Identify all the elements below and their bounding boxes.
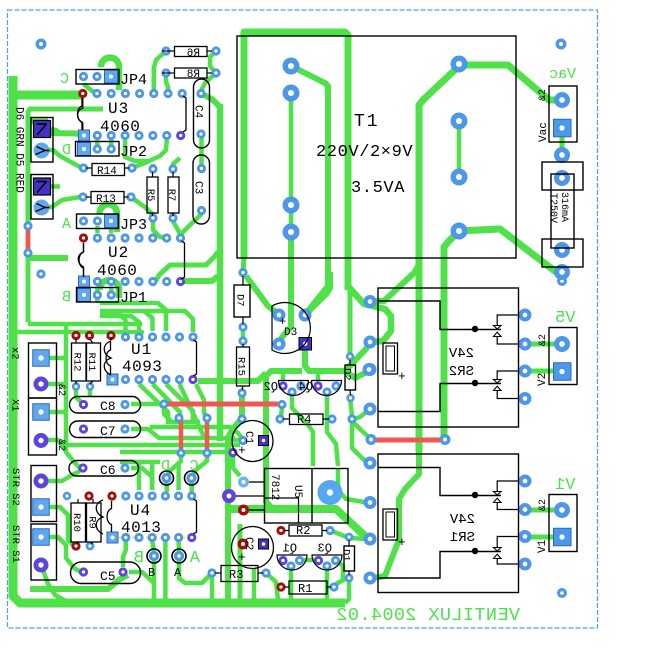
pad D3-2 — [299, 309, 312, 322]
wire SR2 to 5V pin1 — [525, 342, 560, 347]
IC U4 outline — [107, 499, 197, 534]
pad JP4-1 — [79, 72, 88, 81]
wire node to mesh — [164, 406, 200, 422]
relay SR2 diodes bottom — [494, 371, 519, 399]
svg-text:A: A — [174, 566, 182, 580]
svg-text:R6: R6 — [187, 48, 200, 60]
pad SR1 right — [519, 558, 532, 571]
pad R10 bottom red — [71, 541, 80, 550]
wire R3 to trunk — [266, 573, 278, 600]
pad U1 bottom row — [188, 375, 197, 384]
pad U4 bottom row — [161, 533, 170, 542]
svg-text:SR2: SR2 — [449, 364, 474, 380]
wire D6 K stub — [50, 129, 60, 133]
wire mains to fuse — [459, 229, 560, 272]
connector JP1 outline — [77, 288, 119, 303]
wire omega JP3 — [100, 204, 118, 232]
pad R7 bottom — [168, 213, 177, 222]
pad R6 left — [161, 46, 170, 55]
capacitor C1 outline — [232, 421, 273, 462]
capacitor C4 outline — [194, 79, 210, 148]
svg-text:+: + — [398, 535, 406, 550]
pad T1 left — [283, 224, 300, 241]
wire C4 to C3 — [199, 138, 204, 165]
svg-text:4060: 4060 — [100, 118, 140, 136]
wire red v1 — [179, 420, 184, 451]
pad R1 left red — [276, 582, 285, 591]
pad D2 bottom — [346, 394, 354, 402]
pad C3 top — [197, 164, 206, 173]
wire R5 bottom — [153, 221, 166, 238]
pad C1 plus navy square — [259, 436, 269, 446]
svg-text:R4: R4 — [297, 413, 311, 427]
wire U1 diag2 — [153, 384, 181, 424]
wire red relay link — [375, 438, 441, 443]
svg-text:7812: 7812 — [268, 474, 280, 500]
wire red v2 — [205, 420, 210, 451]
svg-text:Q2: Q2 — [264, 380, 278, 394]
pad T1 right — [451, 113, 468, 130]
wire band y381 — [198, 373, 266, 381]
wire violet pad to trunk — [184, 276, 218, 281]
wire C8 to red node — [131, 402, 160, 407]
pad U2 bottom row — [162, 277, 171, 286]
connector V2 outline — [549, 328, 577, 385]
pad U2 bottom row — [121, 277, 130, 286]
wire R14 to U3 — [132, 140, 167, 168]
svg-text:24V: 24V — [449, 512, 475, 528]
pad U3 bottom row — [148, 131, 157, 140]
pad U1 bottom row — [121, 375, 130, 384]
pad C8 right — [120, 400, 129, 409]
via near fuse — [557, 276, 567, 286]
pad JP1-1 square — [78, 289, 91, 302]
svg-text:Vac: Vac — [538, 122, 550, 142]
pad R9 top red — [107, 491, 116, 500]
pad U4 bottom row — [148, 533, 157, 542]
U5 inner step — [265, 498, 299, 523]
pad U4 top row — [134, 491, 143, 500]
pad U1 top row — [188, 332, 197, 341]
pad D3-1 — [273, 309, 286, 322]
wire SR1 S-curve — [373, 452, 419, 578]
R4 lead left — [283, 418, 290, 420]
pad U5 gnd violet — [222, 489, 236, 503]
pad red right end — [277, 400, 286, 409]
wire JP3-U2 v1 — [95, 226, 100, 233]
wire to D7 — [243, 258, 244, 272]
R4 lead right — [323, 418, 329, 420]
pad S1-2 violet — [34, 558, 49, 573]
R8 lead right — [207, 72, 212, 74]
pad SR2 left — [364, 295, 377, 308]
pad U3 top row — [178, 89, 187, 98]
relay SR1 outline — [378, 454, 519, 593]
wire U4 stub up3 — [176, 464, 181, 490]
pad R7 top — [168, 164, 177, 173]
wire R15 to bottom trunk — [228, 396, 242, 600]
relay SR1 diodes bottom — [494, 537, 519, 565]
svg-text:&2: &2 — [538, 499, 549, 511]
svg-text:+: + — [238, 443, 246, 458]
pad S2-1 violet — [34, 474, 49, 489]
pad U3 pin red — [78, 89, 87, 98]
svg-text:D2: D2 — [341, 368, 353, 381]
svg-text:U1: U1 — [131, 341, 152, 359]
wire U4 stub up1 — [137, 464, 142, 490]
wire left stub y258 — [28, 255, 68, 261]
wire red left — [26, 229, 31, 250]
pad R10 top red — [84, 491, 93, 500]
pad D7 top — [238, 268, 247, 277]
pad X2-1 square — [33, 350, 50, 367]
wire JP1 down — [95, 295, 100, 303]
svg-text:JP3: JP3 — [120, 217, 147, 234]
pad via left3 — [36, 269, 45, 278]
pad SR2 left3 — [363, 363, 376, 376]
svg-text:STR S2: STR S2 — [9, 468, 21, 506]
resistor R6 outline — [175, 47, 208, 57]
wire R7 top stub — [173, 158, 180, 172]
capacitor C2 outline — [232, 527, 274, 569]
U5 lead1 — [249, 481, 265, 483]
pad R15 bottom — [237, 388, 246, 397]
wire U1 diag4 — [180, 384, 206, 439]
R10 lead2 — [77, 542, 78, 544]
wire inner bottom — [30, 575, 128, 589]
pad red h left — [159, 399, 168, 408]
wire D6 A to R14 — [41, 150, 83, 168]
svg-text:R5: R5 — [144, 189, 156, 202]
pad JP4-3 square — [105, 70, 118, 83]
wire bus y445 — [66, 443, 240, 448]
svg-text:R12: R12 — [70, 353, 82, 372]
pad fuse top outer — [554, 147, 570, 163]
svg-text:R11: R11 — [85, 353, 97, 372]
wire R2 to D1 — [332, 531, 348, 537]
pad U4 top row — [187, 491, 196, 500]
transformer T1 outline — [237, 36, 516, 258]
resistor R13 outline — [91, 192, 124, 204]
U5 divider — [311, 469, 313, 524]
wire R13 to R5 — [131, 197, 153, 216]
relay SR1 diodes top — [494, 481, 519, 510]
pad X2-2 violet — [34, 377, 49, 392]
wire mesh L4 to U1 — [100, 316, 139, 331]
pad U1 bottom row — [161, 375, 170, 384]
pad test point B — [147, 549, 161, 563]
pad Q3 b — [322, 561, 331, 570]
pad U1 bottom row — [134, 375, 143, 384]
R1 lead right — [327, 586, 331, 588]
pad U4 top row — [161, 491, 170, 500]
pad C7 left — [79, 424, 88, 433]
transistor Q3 — [312, 555, 342, 570]
wire U3-JP2 v2 — [109, 140, 114, 146]
pad U3 bottom row — [107, 131, 116, 140]
pad U1 bottom row — [148, 375, 157, 384]
pad T1 right — [451, 223, 468, 240]
resistor R14 outline — [92, 164, 125, 176]
wire omega JP4 — [101, 58, 119, 90]
pad T1 left — [283, 197, 300, 214]
fuse body — [551, 174, 574, 248]
pad U3 bottom row — [93, 131, 102, 140]
svg-text:Q1: Q1 — [283, 542, 297, 556]
U1 pin1 curl — [104, 341, 111, 375]
relay SR1 bottom wire — [378, 552, 501, 579]
wire JP3-U2 v2 — [109, 226, 114, 233]
pad U2 top row — [134, 233, 143, 242]
wire R8 left — [166, 73, 168, 91]
wire Vac to fuse — [560, 135, 565, 153]
svg-text:C3: C3 — [192, 181, 204, 194]
pad U3 top row — [121, 89, 130, 98]
wire yellow highlight — [118, 537, 192, 539]
wire C pad down — [189, 482, 194, 492]
pad Q2 e — [296, 381, 305, 390]
wire mains to Vac — [459, 65, 560, 100]
resistor R11 outline — [87, 343, 101, 381]
svg-text:220V/2×9V: 220V/2×9V — [316, 143, 413, 162]
pad U5 in — [238, 477, 249, 488]
connector X1 outline — [29, 398, 57, 455]
wire JP4 diag — [84, 84, 98, 93]
pad D3-3 — [273, 338, 286, 351]
pad U1 top row — [148, 332, 157, 341]
pad violet 233 — [228, 448, 237, 457]
svg-text:D3: D3 — [284, 327, 297, 339]
U1 curl lead — [110, 338, 112, 341]
resistor R7 outline — [168, 177, 179, 213]
pad R3 left — [207, 568, 216, 577]
resistor R3 outline — [221, 566, 258, 582]
R7 lead — [172, 172, 174, 177]
wire violet233 down — [233, 456, 240, 476]
pad red v2 bottom — [202, 448, 211, 457]
wire B pad to trunk — [152, 558, 157, 600]
pad R9 bottom — [86, 542, 95, 551]
pad U3 top row — [149, 89, 158, 98]
pad R2 left red — [276, 526, 285, 535]
relay SR1 top wire — [378, 468, 501, 496]
svg-text:C2: C2 — [242, 537, 254, 550]
wire U1 diag3 — [166, 384, 193, 422]
pad SR2 right — [519, 392, 532, 405]
pad R11 bottom — [86, 382, 94, 390]
R3 lead right — [258, 572, 263, 574]
diode D1 outline — [344, 546, 355, 571]
capacitor C6 outline — [69, 461, 139, 477]
connector X2 outline — [29, 343, 57, 398]
wire R6 left — [154, 51, 166, 90]
svg-text:U5: U5 — [291, 485, 303, 498]
fuse cap top — [542, 162, 583, 190]
pad U1 top row — [161, 332, 170, 341]
pad LED cathode navy square — [34, 178, 51, 195]
svg-text:24V: 24V — [448, 346, 474, 362]
svg-text:3.5VA: 3.5VA — [351, 179, 405, 198]
pad SR2 left — [364, 363, 377, 376]
relay SR2 cap inner — [386, 346, 395, 371]
svg-text:C5: C5 — [100, 569, 116, 584]
wire omega JP1 — [100, 280, 120, 298]
pad S1-1 square — [33, 529, 50, 546]
wire bus y332 — [13, 330, 66, 335]
svg-text:C8: C8 — [100, 399, 116, 414]
svg-text:B: B — [62, 289, 71, 306]
pad SR1 left — [364, 496, 377, 509]
wire bus y324 — [28, 322, 66, 327]
svg-text:STR S1: STR S1 — [9, 525, 21, 563]
pad R5 bottom — [148, 213, 157, 222]
R15 lead — [242, 344, 244, 347]
svg-text:D: D — [62, 142, 71, 159]
wire bus y452 — [120, 450, 233, 455]
svg-text:U3: U3 — [108, 100, 129, 118]
pad fuse bottom — [554, 242, 570, 258]
resistor R1 outline — [289, 581, 327, 594]
wire bus y462 — [120, 460, 160, 465]
R13 lead left — [86, 196, 91, 198]
R5 lead2 — [152, 213, 154, 216]
pad U3 pin9 square — [79, 130, 90, 141]
svg-text:4060: 4060 — [97, 262, 137, 280]
wire X2 link — [48, 356, 66, 361]
wire X1 pin2 link — [46, 440, 66, 452]
svg-text:D: D — [161, 458, 170, 475]
pad Q4 b — [322, 387, 331, 396]
wire U2-JP1 v1 — [95, 287, 100, 294]
pad R13 right — [126, 192, 135, 201]
svg-text:&2: &2 — [55, 384, 66, 396]
wire red pad link — [352, 421, 371, 439]
pad C5 left — [79, 567, 88, 576]
pad SR2 right — [519, 309, 532, 322]
wire R6-R8 right — [210, 51, 216, 72]
svg-text:C: C — [60, 71, 69, 88]
pad R8 left — [161, 68, 170, 77]
pad Q2 b — [287, 387, 296, 396]
svg-text:D6 GRN D5 RED: D6 GRN D5 RED — [13, 107, 25, 193]
pad U4 square — [107, 532, 118, 543]
pad test point D — [160, 471, 174, 485]
svg-text:+: + — [238, 550, 246, 565]
wire U2-JP1 v2 — [109, 287, 114, 294]
relay SR2 cap — [383, 343, 398, 374]
wire to pad207 — [196, 384, 206, 416]
pad R13 left — [78, 192, 87, 201]
capacitor C3 outline — [193, 155, 210, 224]
R3 lead left — [215, 572, 221, 574]
wire U4 pin to trunk — [163, 541, 168, 600]
pad C8 left — [79, 400, 88, 409]
wire D3 sq to relay pad2 — [305, 344, 369, 371]
pad D1 top — [345, 533, 354, 542]
pad U1 top row — [121, 332, 130, 341]
wire C1 neg stub — [232, 438, 240, 443]
pad C2 navy square — [259, 539, 269, 549]
pad SR2 left — [364, 336, 377, 349]
svg-text:C4: C4 — [192, 105, 204, 119]
wire Q1 to trunk — [289, 566, 294, 600]
svg-text:R1: R1 — [298, 582, 312, 596]
diode bridge D3 outline — [272, 303, 310, 354]
R12 lead2 — [75, 381, 77, 384]
pad C2 plus red — [238, 539, 249, 550]
transistor Q2 — [279, 381, 309, 396]
R2 lead left — [284, 530, 289, 532]
svg-text:VENTILUX 2004.02: VENTILUX 2004.02 — [336, 605, 520, 626]
U3 pin1 wiggle — [78, 98, 83, 130]
wire ground ring left+bottom — [13, 76, 345, 603]
wire bus y324 right — [68, 322, 142, 327]
pad U3 bottom row — [176, 131, 185, 140]
pad SR1 right — [519, 503, 532, 516]
svg-text:X1: X1 — [9, 399, 21, 412]
wire C7 bus — [131, 429, 235, 438]
pad Q4 c — [313, 381, 322, 390]
wire mesh L3 to U1 — [100, 313, 126, 331]
pad R12 bottom — [72, 382, 80, 390]
pad via left1 — [23, 221, 32, 230]
pad T1 left — [283, 85, 300, 102]
wire band y122 — [27, 119, 48, 125]
connector S2 outline — [31, 466, 57, 522]
svg-text:+: + — [398, 369, 406, 384]
pad JP3-3 square — [105, 215, 118, 228]
svg-text:D7: D7 — [234, 294, 246, 307]
wire inner ring left — [28, 109, 103, 322]
wire U3-JP2 v1 — [95, 140, 100, 146]
svg-text:&2: &2 — [538, 89, 549, 101]
wire D3 to trunk — [305, 272, 330, 315]
R11 lead2 — [90, 381, 93, 384]
pad Q3 e — [331, 556, 340, 565]
pad U4 top row — [121, 491, 130, 500]
pad JP1-2 — [93, 290, 102, 299]
pad JP3-2 — [93, 216, 102, 225]
wire S2 link — [47, 471, 80, 481]
wire x240 to trunk — [238, 524, 243, 600]
svg-text:4093: 4093 — [122, 358, 162, 376]
svg-text:C7: C7 — [100, 424, 116, 439]
svg-text:R13: R13 — [96, 194, 116, 206]
pad X1-1 square — [33, 404, 50, 421]
transistor Q4 — [312, 381, 342, 396]
pad Q1 b — [286, 561, 295, 570]
pad C4 top — [196, 89, 205, 98]
connector V1 outline — [549, 495, 577, 552]
pad test point A — [172, 549, 186, 563]
D7 lead2 — [242, 317, 244, 324]
pad U2 top row — [162, 233, 171, 242]
pad red link right — [440, 434, 451, 445]
pad U3 bottom row — [162, 131, 171, 140]
pad R6 right — [211, 46, 220, 55]
svg-text:V1: V1 — [555, 476, 575, 495]
pad connector square — [554, 119, 572, 137]
resistor R9 outline — [87, 503, 102, 542]
svg-text:B: B — [148, 566, 155, 580]
resistor R2 outline — [289, 525, 322, 536]
capacitor C8 outline — [70, 397, 141, 414]
wire to D3 lower left — [279, 232, 291, 342]
wire D1 top to SR1 pad3 — [351, 538, 366, 539]
wire SR1 to 1V pin2 — [525, 535, 556, 540]
pad R4 right — [327, 414, 336, 423]
svg-text:R2: R2 — [296, 524, 310, 538]
